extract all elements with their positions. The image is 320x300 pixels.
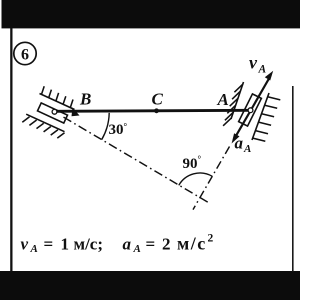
left frame border: [10, 28, 12, 272]
dark junction blob near B where rail meets the bar: [72, 108, 80, 117]
svg-text:B: B: [79, 90, 91, 109]
B guide lower hatching: [22, 117, 64, 138]
svg-text:м/с: м/с: [177, 234, 207, 254]
svg-text:=: =: [44, 235, 54, 254]
bottom condition text: [21, 233, 214, 256]
dash-dot axis from a_A tip to past vertex: [193, 147, 230, 210]
30 deg angle arc at B: [102, 113, 110, 140]
right frame border: [292, 86, 294, 272]
pin at A: [248, 108, 253, 113]
svg-text:A: A: [217, 90, 229, 109]
A guide left hatching: [223, 84, 243, 126]
svg-text:2: 2: [162, 235, 171, 254]
svg-text:2: 2: [208, 233, 214, 245]
A slider block: [239, 94, 262, 126]
velocity vector v_A: [252, 79, 270, 110]
svg-text:м/с;: м/с;: [74, 235, 104, 254]
variant number circle 6: [14, 42, 36, 64]
B guide upper rail: [40, 94, 75, 110]
pin at B: [52, 109, 57, 114]
B guide upper hatching: [42, 86, 74, 107]
A guide right hatching: [253, 97, 281, 141]
acceleration vector a_A: [235, 113, 250, 138]
svg-text:v: v: [21, 235, 29, 254]
svg-text:A: A: [133, 243, 141, 255]
bottom black band: [0, 271, 300, 300]
90 deg angle arc at vertex: [179, 173, 213, 185]
svg-text:C: C: [152, 90, 164, 109]
svg-text:a: a: [123, 235, 132, 254]
A guide left rail: [231, 82, 244, 119]
A guide right rail: [252, 93, 269, 140]
B guide lower rail: [26, 114, 64, 132]
svg-text:6: 6: [21, 46, 29, 63]
bar B-C-A: [54, 110, 251, 111]
top black band: [2, 0, 301, 28]
B slider block: [37, 103, 67, 123]
svg-text:1: 1: [61, 235, 70, 254]
dash-dot axis from B to vertex: [64, 117, 209, 202]
svg-text:=: =: [146, 235, 156, 254]
svg-text:A: A: [30, 243, 38, 255]
point C dot: [154, 108, 159, 113]
